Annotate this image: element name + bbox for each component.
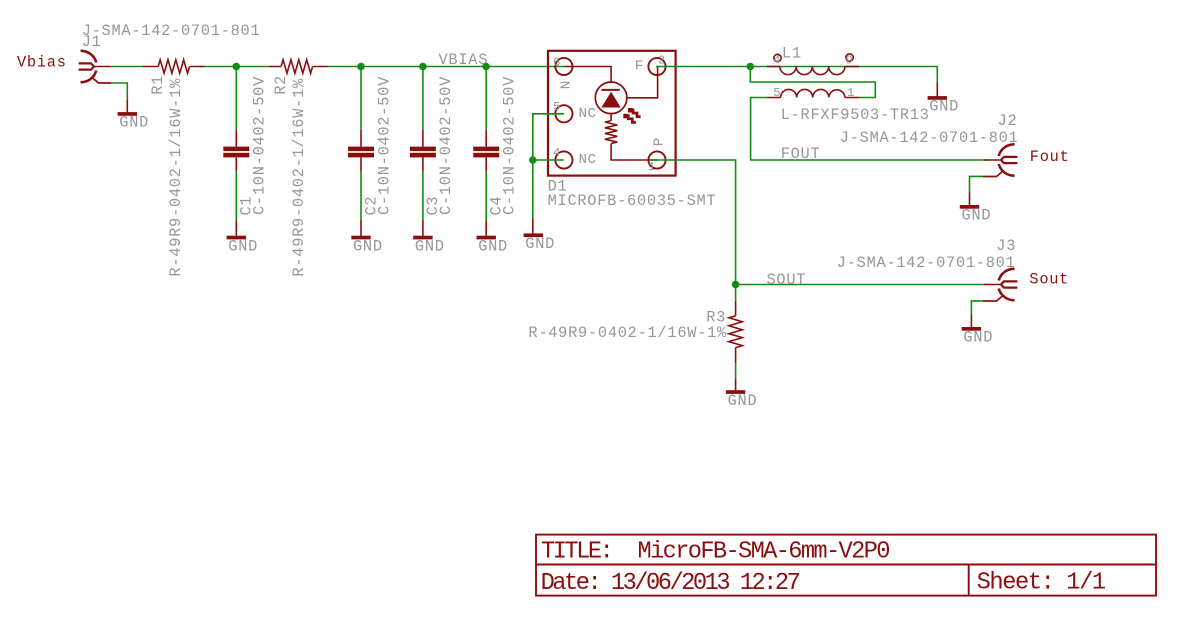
svg-text:GND: GND [353, 237, 383, 255]
svg-text:Sout: Sout [1029, 270, 1069, 288]
svg-text:C-10N-0402-50V: C-10N-0402-50V [251, 76, 269, 215]
ground of J3 [962, 327, 993, 347]
connector J2 (SMA jack) [983, 144, 1017, 176]
wire C4 to ground [485, 172, 487, 221]
ground of C1 [227, 236, 258, 256]
svg-text:6: 6 [553, 55, 560, 69]
wire L1 windings series link [750, 67, 875, 98]
wire J1 ground [111, 83, 127, 99]
wire L1 pin 5 to J2 [751, 98, 987, 161]
svg-text:GND: GND [525, 235, 555, 253]
svg-text:VBIAS: VBIAS [439, 51, 489, 69]
wire J3 ground [971, 301, 983, 314]
capacitor C4 [473, 76, 518, 216]
wire D1 pin P to SOUT [650, 160, 736, 285]
junction SOUT [732, 281, 740, 289]
resistor R2 [269, 60, 329, 277]
wire C4 top [485, 67, 487, 130]
svg-text:MicroFB-SMA-6mm-V2P0: MicroFB-SMA-6mm-V2P0 [638, 539, 890, 566]
inductor L1 (transformer) [767, 54, 859, 98]
D1 pin circles [555, 58, 665, 169]
svg-text:NC: NC [579, 152, 597, 168]
junction F net [747, 63, 755, 71]
title block frame [536, 535, 1156, 596]
svg-text:GND: GND [963, 329, 993, 347]
svg-text:1: 1 [847, 86, 854, 100]
svg-text:J2: J2 [998, 112, 1018, 130]
J1 pin wire [94, 66, 111, 68]
ground of C2 [351, 236, 382, 256]
junction at C3 [419, 63, 427, 71]
svg-text:GND: GND [962, 207, 992, 225]
wire C3 to ground [422, 172, 424, 221]
svg-text:GND: GND [478, 237, 508, 255]
D1 inner wiring [564, 67, 658, 161]
resistor R1 [143, 60, 205, 277]
svg-text:5: 5 [553, 100, 560, 114]
svg-text:GND: GND [415, 237, 445, 255]
svg-text:1: 1 [648, 160, 655, 174]
svg-text:4: 4 [773, 54, 780, 68]
svg-text:J-SMA-142-0701-801: J-SMA-142-0701-801 [840, 129, 1019, 147]
svg-text:J-SMA-142-0701-801: J-SMA-142-0701-801 [82, 22, 261, 40]
wire SOUT to R3 [735, 285, 737, 301]
svg-text:R-49R9-0402-1/16W-1%: R-49R9-0402-1/16W-1% [167, 78, 185, 277]
svg-text:MICROFB-60035-SMT: MICROFB-60035-SMT [548, 192, 717, 210]
capacitor C1 [223, 76, 268, 216]
svg-text:GND: GND [728, 392, 758, 410]
capacitor C2 [348, 76, 393, 216]
light arrows [625, 110, 641, 122]
svg-text:Fout: Fout [1030, 148, 1070, 166]
svg-text:Sheet: 1/1: Sheet: 1/1 [977, 569, 1106, 596]
junction at C2 [357, 63, 365, 71]
resistor R3 [528, 301, 742, 363]
wire C2 to ground [360, 172, 362, 221]
svg-text:R-49R9-0402-1/16W-1%: R-49R9-0402-1/16W-1% [528, 324, 727, 342]
svg-text:GND: GND [228, 237, 258, 255]
svg-text:Vbias: Vbias [17, 53, 67, 71]
wire C1 to ground [235, 172, 237, 221]
ground of F net [928, 96, 959, 116]
wire R3 to ground [735, 363, 737, 379]
wire C2 top [360, 67, 362, 130]
ground of R3 [726, 390, 757, 410]
svg-text:2: 2 [658, 54, 665, 68]
wire C3 top [422, 67, 424, 130]
svg-text:R1: R1 [149, 75, 167, 95]
svg-text:C-10N-0402-50V: C-10N-0402-50V [501, 76, 519, 215]
svg-text:R2: R2 [272, 75, 290, 95]
D1 internal resistor [605, 121, 617, 144]
svg-text:NC: NC [579, 106, 597, 122]
svg-text:4: 4 [553, 146, 560, 160]
svg-text:J3: J3 [996, 237, 1016, 255]
junction at VBIAS/C4 [482, 63, 490, 71]
svg-text:C-10N-0402-50V: C-10N-0402-50V [437, 76, 455, 215]
wire R2 to D1 pin 6 [329, 66, 564, 68]
wire J2 ground [970, 176, 984, 192]
ground of C3 [413, 236, 444, 256]
wire SOUT to J3 [736, 284, 987, 286]
svg-text:L-RFXF9503-TR13: L-RFXF9503-TR13 [781, 106, 930, 124]
svg-text:5: 5 [773, 86, 780, 100]
photodiode module D1 outline [548, 51, 676, 176]
LED D1 symbol [595, 82, 627, 114]
svg-text:GND: GND [119, 114, 149, 132]
svg-text:TITLE:: TITLE: [541, 539, 611, 566]
svg-text:Date: 13/06/2013 12:27: Date: 13/06/2013 12:27 [541, 570, 800, 597]
wire R1 to R2 [204, 66, 268, 68]
ground of NC net [524, 233, 555, 253]
ground of J1 [118, 112, 149, 132]
svg-text:R-49R9-0402-1/16W-1%: R-49R9-0402-1/16W-1% [290, 78, 308, 277]
svg-text:L1: L1 [782, 45, 802, 63]
svg-text:FOUT: FOUT [781, 145, 821, 163]
junction at C1 [233, 63, 241, 71]
svg-text:N: N [559, 80, 575, 89]
svg-text:C-10N-0402-50V: C-10N-0402-50V [375, 76, 393, 215]
ground of J2 [960, 205, 991, 225]
ground of C4 [477, 236, 508, 256]
connector J1 (SMA jack) [79, 51, 111, 83]
svg-text:SOUT: SOUT [767, 271, 807, 289]
svg-text:J-SMA-142-0701-801: J-SMA-142-0701-801 [837, 254, 1016, 272]
svg-text:P: P [651, 137, 667, 146]
capacitor C3 [410, 76, 455, 216]
wire C1 top [235, 67, 237, 130]
svg-text:GND: GND [929, 98, 959, 116]
svg-text:J1: J1 [82, 33, 102, 51]
junction NC net [529, 156, 537, 164]
connector J3 (SMA jack) [983, 269, 1017, 301]
wire J1 to R1 [111, 66, 144, 68]
svg-text:9: 9 [846, 54, 853, 68]
svg-text:F: F [635, 59, 644, 75]
wire D1 NC pins to ground [533, 114, 564, 219]
wire D1 pin 2 to L1 [656, 67, 937, 83]
